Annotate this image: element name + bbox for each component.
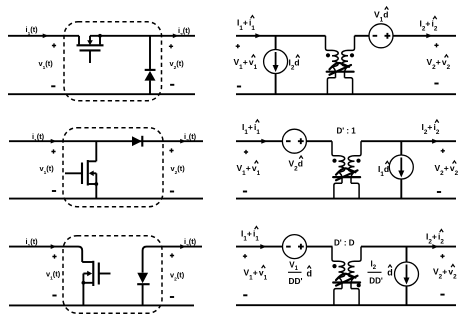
wire e3 to transformer [307, 246, 333, 248]
svg-text:I2d: I2d [289, 58, 300, 72]
polarity - V2 row3R [440, 294, 444, 296]
polarity - v2 row3 [170, 296, 174, 298]
svg-text:V1+v1: V1+v1 [244, 268, 268, 282]
svg-text:D' : 1: D' : 1 [337, 127, 357, 136]
arrow i1(t) row3 [51, 244, 57, 249]
svg-text:I2: I2 [371, 259, 377, 271]
svg-text:I1+i1: I1+i1 [241, 229, 259, 243]
svg-text:I2+i2: I2+i2 [422, 122, 440, 136]
svg-text:DD': DD' [289, 276, 303, 286]
polarity + v2 row1 [169, 44, 173, 48]
wire to current source g3 [406, 247, 408, 263]
wire row2R input rail [236, 140, 282, 142]
arrow i2(t) row1 [173, 33, 179, 38]
polarity - v1 row1 [51, 85, 55, 87]
wire row2R bottom rail [236, 198, 456, 200]
hat over d row3R g3 [388, 265, 392, 268]
wire row3R output top rail [361, 246, 456, 248]
wire row3 bottom rail [9, 304, 194, 306]
dependent voltage source e1 (V1 d) [369, 24, 393, 48]
transistor Q3 (buck-boost MOSFET) [82, 261, 110, 306]
dependent voltage source e3 (V1/DD' d) [283, 235, 307, 259]
ideal transformer T3 (inverting) [332, 247, 361, 306]
polarity + V1 row3R [243, 254, 247, 258]
wire from current source g1 [275, 73, 277, 94]
svg-text:DD': DD' [369, 277, 383, 286]
diode D1 (buck) [145, 36, 156, 94]
svg-text:V2d: V2d [289, 159, 303, 173]
svg-text:I1+i1: I1+i1 [237, 18, 255, 32]
arrow I2+i2 row2R [432, 139, 438, 144]
wire e2 to transformer [307, 140, 333, 142]
svg-text:I1d: I1d [378, 164, 389, 178]
polarity + V2 row1R [434, 43, 438, 47]
svg-text:V2+v2: V2+v2 [427, 57, 451, 71]
transistor Q1 (buck MOSFET) [77, 36, 104, 63]
polarity + v2 row3 [170, 253, 174, 257]
arrow i2(t) row2 [180, 139, 186, 144]
junction dot Q3 source row3 [82, 281, 86, 285]
arrow I1+i1 row1R [255, 33, 261, 38]
polarity + V1 row1R [236, 44, 240, 48]
polarity + v1 row3 [52, 254, 56, 258]
polarity + v1 row2 [51, 149, 55, 153]
wire from current source g3 [406, 286, 408, 305]
svg-text:d: d [387, 267, 393, 277]
dependent current source g1 (I2 d) [264, 50, 288, 74]
svg-text:v2(t): v2(t) [170, 270, 185, 282]
svg-text:V2+v2: V2+v2 [433, 267, 457, 281]
dependent current source g3 (I2/DD' d) [395, 262, 419, 286]
junction dot Q1 source row1 [98, 34, 102, 38]
svg-text:I2+i2: I2+i2 [420, 19, 438, 33]
dependent current source g2 (I1 d) [389, 155, 413, 179]
polarity - v2 row2 [170, 191, 174, 193]
svg-text:d: d [307, 268, 313, 278]
wire row1R bottom rail [236, 93, 456, 95]
polarity - v2 row1 [170, 84, 174, 86]
arrow I1+i1 row3R [260, 244, 266, 249]
hat over d row3R e3 [307, 266, 311, 269]
wire to current source g2 [400, 141, 402, 155]
svg-text:V1+v1: V1+v1 [237, 163, 261, 177]
polarity - v1 row3 [52, 295, 56, 297]
diode D2 (boost) [132, 136, 142, 146]
dashed switch-network box row3 [63, 236, 162, 314]
ideal transformer T1 [326, 36, 355, 94]
polarity + v1 row1 [52, 43, 56, 47]
svg-text:D' : D: D' : D [334, 239, 355, 248]
polarity - V2 row2R [437, 191, 441, 193]
svg-text:I2+i2: I2+i2 [426, 232, 444, 246]
polarity - V2 row1R [434, 83, 438, 85]
wire row1R transformer to source e1 [355, 35, 370, 37]
dashed switch-network box row2 [63, 128, 163, 207]
arrow I2+i2 row3R [432, 244, 438, 249]
arrow i1(t) row1 [43, 33, 49, 38]
polarity + V2 row2R [441, 149, 445, 153]
wire row3 input top rail with corner [9, 247, 82, 262]
polarity - V1 row3R [243, 294, 247, 296]
wire row2R output top rail [361, 140, 456, 142]
wire row1 bottom rail [8, 93, 195, 95]
wire from current source g2 [400, 179, 402, 199]
wire row2 top rail [9, 140, 203, 142]
diode D3 (buck-boost) [137, 284, 149, 305]
wire to current source g1 [275, 36, 277, 50]
svg-text:v1(t): v1(t) [40, 164, 55, 176]
svg-text:V1d: V1d [374, 10, 388, 24]
arrow I1+i1 row2R [261, 139, 267, 144]
transistor Q2 (boost MOSFET) [65, 141, 96, 198]
wire row1 output top rail [90, 35, 195, 37]
wire row2 bottom rail [9, 198, 203, 200]
svg-text:V1: V1 [289, 260, 298, 272]
wire row3 output top rail with corner [143, 247, 202, 273]
polarity + v2 row2 [169, 148, 173, 152]
wire row3R bottom rail [236, 304, 456, 306]
wire row1R top rail left of transformer [236, 35, 326, 37]
arrow I2+i2 row1R [426, 33, 432, 38]
svg-text:V1+v1: V1+v1 [234, 57, 258, 71]
polarity - V1 row1R [237, 86, 241, 88]
polarity + V2 row3R [440, 254, 444, 258]
svg-text:V2+v2: V2+v2 [435, 163, 459, 177]
polarity - V1 row2R [243, 191, 247, 193]
svg-text:v2(t): v2(t) [170, 59, 185, 71]
svg-text:v1(t): v1(t) [46, 270, 61, 282]
svg-text:v2(t): v2(t) [171, 164, 186, 176]
junction dot Q2 source row2 [94, 182, 98, 186]
arrow i1(t) row2 [51, 139, 57, 144]
svg-text:v1(t): v1(t) [39, 59, 54, 71]
dependent voltage source e2 (V2 d) [282, 129, 306, 153]
svg-text:I1+i1: I1+i1 [242, 122, 260, 136]
ideal transformer T2 [332, 141, 361, 198]
wire row1 input top rail [8, 35, 79, 37]
dashed switch-network box row1 [64, 22, 162, 101]
wire row1R output top rail [393, 35, 456, 37]
polarity + V1 row2R [244, 150, 248, 154]
wire row3R input rail [236, 246, 282, 248]
polarity - v1 row2 [52, 190, 56, 192]
arrow i2(t) row3 [180, 244, 186, 249]
